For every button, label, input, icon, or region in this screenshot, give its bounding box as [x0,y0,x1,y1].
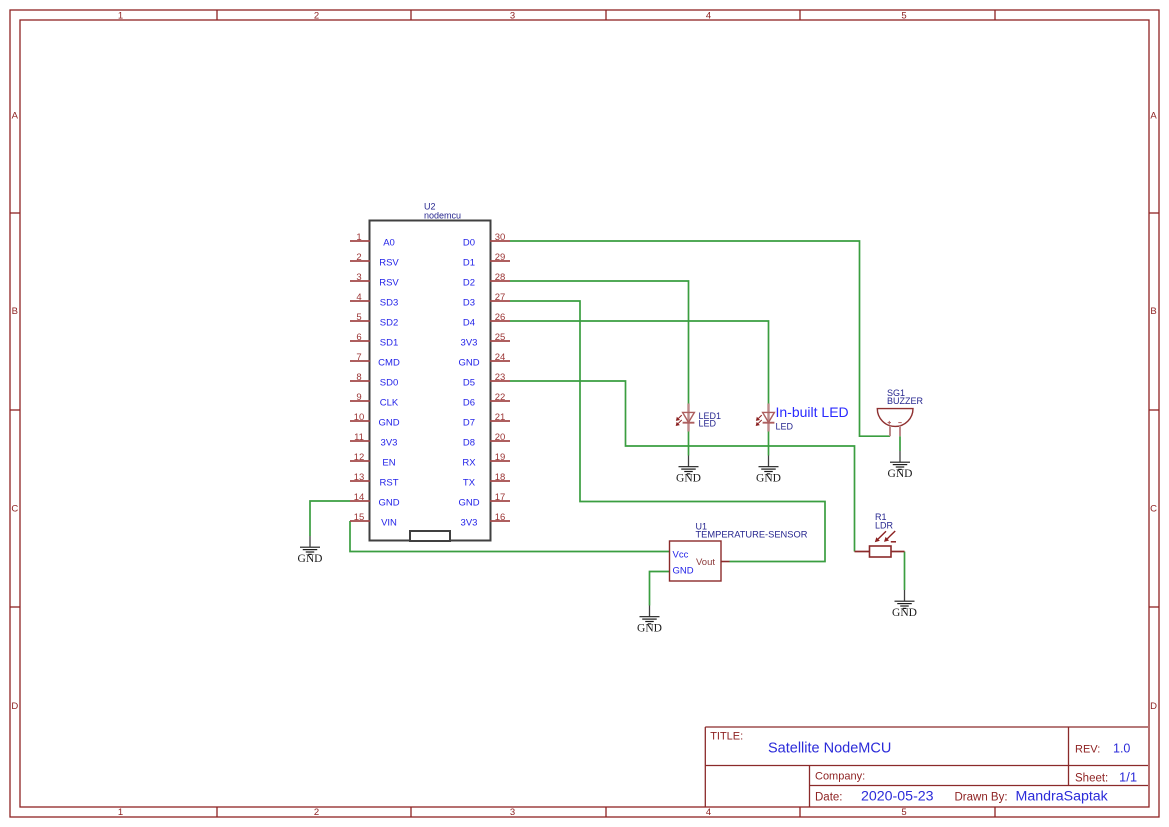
svg-text:GND: GND [637,622,662,634]
svg-text:Satellite NodeMCU: Satellite NodeMCU [768,741,891,757]
svg-text:GND: GND [892,607,917,619]
svg-text:GND: GND [756,472,781,484]
svg-text:In-built LED: In-built LED [776,404,849,420]
svg-text:D7: D7 [463,417,475,428]
svg-text:D6: D6 [463,397,475,408]
svg-text:3: 3 [356,272,361,283]
svg-text:SD1: SD1 [380,337,398,348]
svg-text:VIN: VIN [381,517,397,528]
svg-text:6: 6 [356,332,361,343]
svg-text:11: 11 [354,432,364,443]
svg-text:Vcc: Vcc [673,549,689,560]
svg-text:24: 24 [495,352,506,363]
svg-text:D: D [11,701,18,712]
svg-text:20: 20 [495,432,506,443]
svg-text:GND: GND [378,497,399,508]
svg-text:MandraSaptak: MandraSaptak [1016,789,1109,805]
svg-text:1: 1 [356,232,361,243]
svg-text:D: D [1150,701,1157,712]
svg-text:B: B [12,306,18,317]
svg-text:5: 5 [901,11,906,22]
svg-text:1.0: 1.0 [1113,742,1130,756]
svg-text:8: 8 [356,372,361,383]
svg-text:TX: TX [463,477,476,488]
svg-text:5: 5 [356,312,361,323]
svg-text:2020-05-23: 2020-05-23 [861,789,934,805]
svg-text:A: A [1150,111,1157,122]
svg-text:17: 17 [495,492,506,503]
svg-text:Drawn By:: Drawn By: [955,792,1008,804]
svg-text:12: 12 [354,452,365,463]
svg-text:13: 13 [354,472,365,483]
svg-text:3V3: 3V3 [461,517,478,528]
svg-text:2: 2 [356,252,361,263]
svg-text:RX: RX [462,457,476,468]
svg-text:19: 19 [495,452,506,463]
svg-text:GND: GND [676,472,701,484]
svg-text:CMD: CMD [378,357,400,368]
svg-text:3: 3 [510,11,515,22]
svg-text:4: 4 [356,292,361,303]
svg-text:RSV: RSV [379,257,399,268]
svg-text:22: 22 [495,392,506,403]
svg-text:1: 1 [118,807,123,818]
svg-text:Company:: Company: [815,771,865,783]
svg-text:D2: D2 [463,277,475,288]
svg-text:3V3: 3V3 [381,437,398,448]
svg-text:D1: D1 [463,257,475,268]
svg-text:B: B [1150,306,1156,317]
svg-text:14: 14 [354,492,365,503]
svg-text:4: 4 [706,11,711,22]
svg-text:3V3: 3V3 [461,337,478,348]
svg-text:26: 26 [495,312,506,323]
svg-text:15: 15 [354,512,365,523]
svg-text:CLK: CLK [380,397,399,408]
svg-text:LED: LED [776,422,794,432]
svg-text:2: 2 [314,807,319,818]
svg-text:5: 5 [901,807,906,818]
svg-text:A0: A0 [383,237,395,248]
svg-text:GND: GND [458,497,479,508]
svg-text:25: 25 [495,332,506,343]
svg-text:23: 23 [495,372,506,383]
svg-text:21: 21 [495,412,506,423]
svg-text:C: C [1150,504,1157,515]
svg-text:D0: D0 [463,237,475,248]
svg-text:nodemcu: nodemcu [424,211,461,221]
svg-text:SD3: SD3 [380,297,398,308]
svg-text:3: 3 [510,807,515,818]
svg-text:GND: GND [673,566,694,577]
svg-text:D8: D8 [463,437,475,448]
svg-text:Vout: Vout [696,557,715,568]
svg-text:10: 10 [354,412,365,423]
svg-text:D5: D5 [463,377,475,388]
svg-text:29: 29 [495,252,506,263]
svg-text:27: 27 [495,292,506,303]
svg-text:RST: RST [380,477,399,488]
svg-text:LDR: LDR [875,521,894,531]
svg-text:Date:: Date: [815,792,843,804]
svg-text:2: 2 [314,11,319,22]
svg-text:SD2: SD2 [380,317,398,328]
svg-text:30: 30 [495,232,506,243]
svg-text:D3: D3 [463,297,475,308]
svg-text:Sheet:: Sheet: [1075,772,1108,784]
svg-text:RSV: RSV [379,277,399,288]
svg-text:GND: GND [888,468,913,480]
svg-text:EN: EN [382,457,395,468]
svg-text:A: A [12,111,19,122]
svg-text:7: 7 [356,352,361,363]
svg-text:1: 1 [118,11,123,22]
svg-text:18: 18 [495,472,506,483]
svg-text:REV:: REV: [1075,744,1100,756]
svg-text:GND: GND [458,357,479,368]
svg-text:GND: GND [378,417,399,428]
svg-text:SD0: SD0 [380,377,398,388]
svg-text:1/1: 1/1 [1119,769,1137,784]
svg-text:9: 9 [356,392,361,403]
svg-text:D4: D4 [463,317,475,328]
svg-text:TITLE:: TITLE: [710,731,743,743]
svg-text:C: C [11,504,18,515]
svg-text:4: 4 [706,807,711,818]
svg-text:BUZZER: BUZZER [887,396,924,406]
svg-text:LED: LED [699,419,717,429]
svg-text:TEMPERATURE-SENSOR: TEMPERATURE-SENSOR [696,529,808,539]
svg-text:16: 16 [495,512,506,523]
svg-text:GND: GND [298,553,323,565]
svg-text:28: 28 [495,272,506,283]
